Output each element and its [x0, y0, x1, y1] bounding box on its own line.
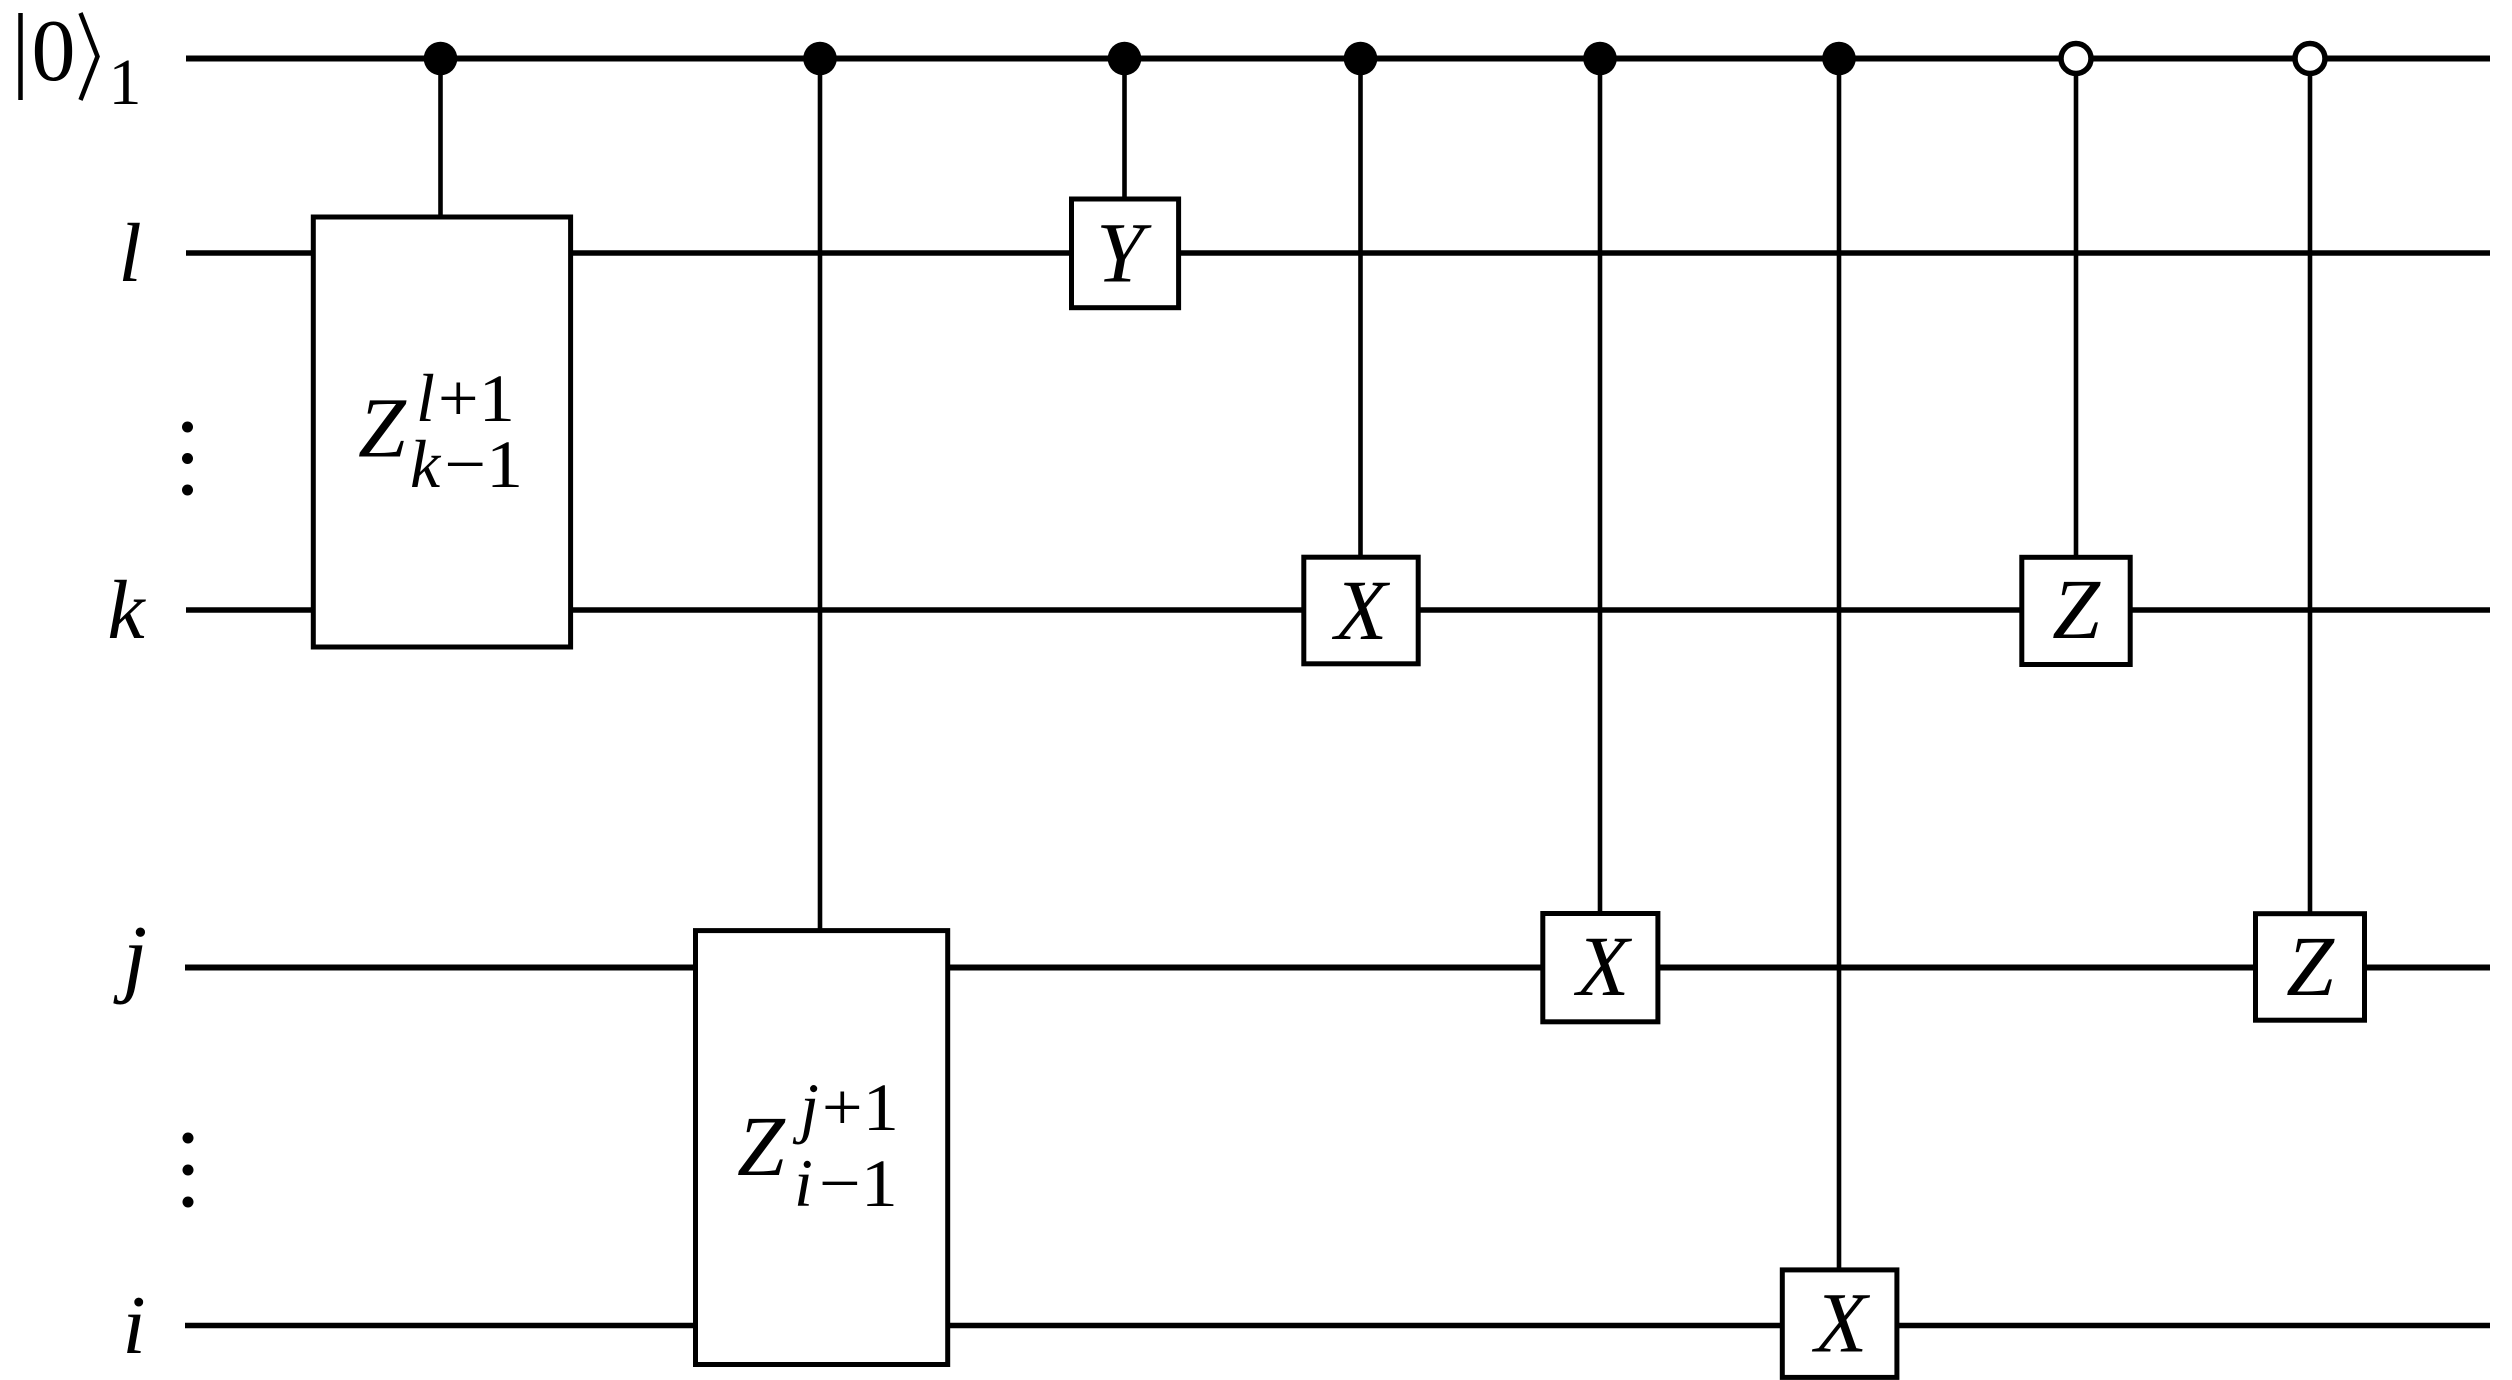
svg-text:Z: Z — [737, 1098, 786, 1194]
wire qubit i — [185, 1323, 2490, 1329]
svg-text:X: X — [1812, 1275, 1871, 1371]
ellipsis dots between l and k — [182, 422, 193, 433]
ket label |0>_1 — [21, 3, 142, 119]
svg-text:X: X — [1332, 562, 1391, 658]
gate Y on wire l — [1072, 199, 1179, 308]
svg-text:j: j — [113, 909, 147, 1006]
svg-text:Y: Y — [1096, 205, 1152, 301]
wire qubit j — [185, 965, 2490, 971]
svg-text:l+1: l+1 — [416, 360, 515, 436]
svg-text:k: k — [107, 564, 146, 657]
svg-text:k−1: k−1 — [410, 426, 523, 502]
svg-text:i−1: i−1 — [794, 1145, 898, 1221]
gate Z on wire j — [2256, 914, 2365, 1021]
label Z^{j+1}_{i-1} of box U2 — [737, 1069, 899, 1221]
wire qubit 1 (|0>_1) — [186, 56, 2490, 62]
svg-text:X: X — [1574, 918, 1633, 1014]
control dot 4 — [1344, 42, 1378, 76]
wire control vertical C2 to Z box 2 — [818, 59, 823, 934]
svg-text:1: 1 — [109, 46, 142, 119]
gate box U1 Z_{k-1}^{l+1} spanning l..k — [313, 217, 570, 647]
svg-text:Z: Z — [2052, 561, 2101, 657]
wire control vertical C4 to X gate on k — [1358, 59, 1363, 561]
control dot 1 — [424, 42, 458, 76]
label Z^{l+1}_{k-1} of box U1 — [358, 360, 523, 502]
wire control vertical C6 to X gate on i — [1837, 59, 1842, 1273]
gate X on wire j — [1543, 914, 1658, 1022]
svg-text:l: l — [118, 207, 141, 300]
wire qubit l — [186, 250, 2490, 256]
control dot 2 — [803, 42, 837, 76]
wire control vertical C1 to Z box 1 — [438, 59, 443, 221]
gate box U2 Z_{i-1}^{j+1} spanning j..i — [696, 931, 948, 1365]
wire qubit k — [186, 607, 2490, 613]
svg-text:i: i — [122, 1279, 145, 1372]
gate X on wire i — [1782, 1270, 1897, 1378]
svg-text:Z: Z — [2286, 918, 2335, 1014]
ellipsis dots between j and i — [183, 1133, 194, 1144]
gate Z on wire k — [2022, 557, 2130, 664]
open control circle 7 — [2061, 44, 2091, 74]
svg-text:0: 0 — [32, 3, 76, 100]
gate X on wire k — [1304, 557, 1418, 664]
wire control vertical C3 to Y gate — [1122, 59, 1127, 203]
svg-text:j+1: j+1 — [792, 1069, 899, 1145]
wire control vertical C8 to Z gate on j — [2308, 59, 2313, 917]
svg-text:Z: Z — [358, 380, 407, 476]
wire control vertical C7 to Z gate on k — [2074, 59, 2079, 561]
control dot 5 — [1583, 42, 1617, 76]
control dot 6 — [1822, 42, 1856, 76]
control dot 3 — [1108, 42, 1142, 76]
open control circle 8 — [2295, 44, 2325, 74]
wire control vertical C5 to X gate on j — [1598, 59, 1603, 917]
